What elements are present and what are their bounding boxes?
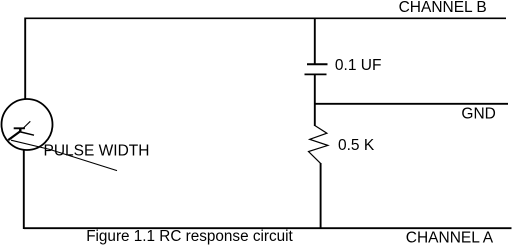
svg-text:0.1 UF: 0.1 UF (335, 57, 382, 74)
svg-text:0.5 K: 0.5 K (338, 137, 375, 154)
svg-text:Figure 1.1 RC response circuit: Figure 1.1 RC response circuit (86, 228, 293, 245)
svg-text:GND: GND (461, 105, 495, 122)
svg-text:CHANNEL A: CHANNEL A (406, 229, 494, 246)
svg-text:CHANNEL B: CHANNEL B (399, 0, 487, 16)
svg-text:PULSE WIDTH: PULSE WIDTH (44, 143, 150, 160)
